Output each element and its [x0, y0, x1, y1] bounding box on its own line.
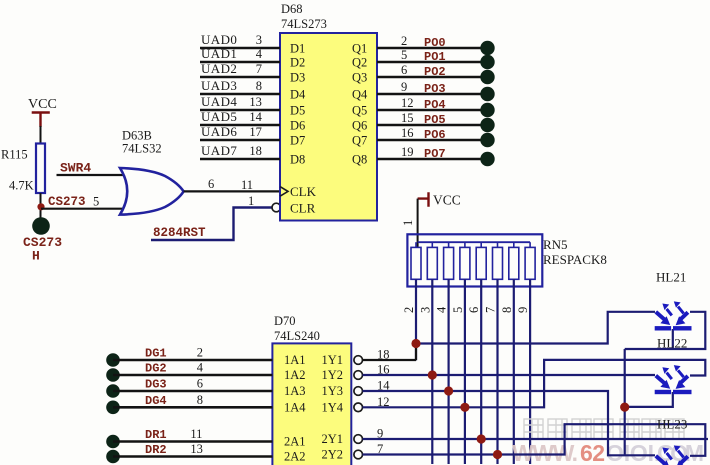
svg-text:74LS240: 74LS240 — [274, 329, 320, 343]
terminal PO5 — [480, 118, 494, 132]
terminal DG1 — [106, 353, 120, 367]
svg-text:D2: D2 — [290, 56, 305, 70]
junction dot net18/RN2 — [411, 339, 420, 348]
svg-text:1A4: 1A4 — [284, 400, 306, 414]
junction dot net12/RN5 — [460, 403, 469, 412]
svg-text:D5: D5 — [290, 104, 305, 118]
svg-text:UAD5: UAD5 — [201, 109, 237, 124]
svg-text:VCC: VCC — [28, 97, 57, 112]
terminal PO4 — [480, 103, 494, 117]
junction dot net7/RN7 — [493, 450, 502, 459]
wire DG3 — [113, 377, 272, 392]
svg-text:UAD2: UAD2 — [201, 61, 237, 76]
svg-text:2: 2 — [197, 346, 203, 360]
svg-text:4: 4 — [435, 306, 449, 313]
svg-text:CS273: CS273 — [23, 235, 62, 250]
svg-text:PO1: PO1 — [424, 50, 446, 64]
terminal DG3 — [106, 384, 120, 398]
terminal DG4 — [106, 401, 120, 415]
wire UAD7 — [200, 143, 280, 159]
svg-text:13: 13 — [190, 442, 203, 456]
svg-text:1Y3: 1Y3 — [322, 384, 344, 398]
svg-text:1: 1 — [401, 220, 415, 226]
wire RN5 pin 5 — [451, 279, 465, 464]
watermark url — [512, 440, 704, 465]
wire R115 to terminal — [40, 193, 42, 218]
svg-text:UAD0: UAD0 — [201, 32, 237, 47]
svg-text:2Y1: 2Y1 — [322, 432, 344, 446]
LED HL22 — [655, 336, 692, 395]
wire pin14 to HL23 anode — [363, 391, 656, 455]
svg-text:19: 19 — [401, 145, 414, 159]
wire RN5 pin 3 — [418, 279, 432, 464]
LED HL21 — [655, 270, 692, 331]
svg-text:PO5: PO5 — [424, 113, 446, 127]
svg-text:Q6: Q6 — [352, 119, 367, 133]
svg-text:WWW.: WWW. — [512, 440, 578, 465]
svg-text:RESPACK8: RESPACK8 — [543, 252, 607, 267]
svg-text:Q5: Q5 — [352, 104, 367, 118]
wire pin9 — [363, 438, 709, 440]
inverter bubble 2Y2 — [354, 450, 363, 459]
svg-text:6: 6 — [197, 377, 203, 391]
clock marker CLK pin — [280, 187, 288, 197]
svg-text:VCC: VCC — [433, 193, 461, 208]
svg-text:H: H — [32, 249, 40, 264]
wire UAD5 — [200, 109, 280, 125]
wire PO3 — [377, 80, 481, 96]
svg-text:3: 3 — [256, 33, 262, 47]
junction dot net16/RN3 — [428, 370, 437, 379]
svg-text:1Y2: 1Y2 — [322, 368, 344, 382]
wire cathode bus — [624, 349, 626, 455]
svg-text:6: 6 — [401, 63, 407, 77]
LED HL23 — [655, 417, 692, 465]
svg-text:DR2: DR2 — [145, 443, 167, 457]
svg-text:1Y4: 1Y4 — [322, 400, 344, 414]
svg-text:5: 5 — [401, 48, 407, 62]
wire pin18 to node — [363, 344, 417, 361]
svg-text:2A1: 2A1 — [284, 435, 306, 449]
wire PO7 — [377, 145, 481, 161]
svg-text:UAD6: UAD6 — [201, 124, 237, 139]
wire RN5 pin 6 — [467, 279, 481, 464]
wire net18 to HL21 anode — [416, 312, 655, 344]
wire DR1 — [113, 427, 272, 442]
svg-text:OIOI: OIOI — [606, 440, 654, 465]
svg-text:PO6: PO6 — [424, 128, 446, 142]
terminal PO0 — [480, 41, 494, 55]
svg-text:PO7: PO7 — [424, 147, 446, 161]
svg-text:D1: D1 — [290, 42, 305, 56]
inverter bubble 1Y1 — [354, 356, 363, 365]
junction dot net9/RN6 — [477, 434, 486, 443]
svg-text:Q4: Q4 — [352, 88, 368, 102]
terminal PO2 — [480, 70, 494, 84]
svg-text:4: 4 — [256, 47, 263, 61]
svg-text:Q3: Q3 — [352, 71, 367, 85]
wire RN5 pin 8 — [500, 279, 514, 464]
IC D68 74LS273 — [280, 2, 377, 221]
svg-text:6: 6 — [467, 307, 481, 313]
wire UAD4 — [200, 94, 280, 110]
wire DG4 — [113, 393, 272, 408]
svg-text:PO0: PO0 — [424, 36, 446, 50]
wire pin12 to HL22 right anode — [363, 360, 706, 407]
terminal PO1 — [480, 55, 494, 69]
wire / label CS273 5 — [41, 195, 130, 210]
wire UAD6 — [200, 124, 280, 140]
svg-text:HL22: HL22 — [657, 336, 687, 351]
svg-text:16: 16 — [401, 126, 414, 140]
wire pin16 to HL22 anode — [363, 374, 656, 376]
wire UAD0 — [200, 32, 280, 48]
inverter bubble 1Y4 — [354, 403, 363, 412]
svg-text:HL23: HL23 — [657, 417, 687, 432]
wire PO4 — [377, 96, 481, 112]
svg-text:DG3: DG3 — [145, 378, 167, 392]
IC D70 74LS240 — [272, 314, 351, 465]
svg-text:1: 1 — [248, 194, 254, 208]
svg-text:5: 5 — [93, 195, 99, 209]
wire HL22 cathode — [625, 392, 673, 407]
watermark chinese characters — [524, 419, 684, 439]
svg-text:9: 9 — [516, 307, 530, 313]
svg-text:8284RST: 8284RST — [153, 226, 206, 240]
inverter bubble 1Y3 — [354, 387, 363, 396]
terminal PO7 — [480, 152, 494, 166]
wire UAD1 — [200, 46, 280, 62]
svg-text:UAD7: UAD7 — [201, 143, 237, 158]
svg-text:D70: D70 — [274, 314, 296, 328]
svg-text:D6: D6 — [290, 119, 305, 133]
junction node CS273 — [37, 203, 44, 210]
svg-text:7: 7 — [256, 62, 262, 76]
svg-text:11: 11 — [241, 178, 253, 192]
svg-text:DG2: DG2 — [145, 362, 167, 376]
svg-text:2Y2: 2Y2 — [322, 448, 344, 462]
wire VCC to RN5 pin 1 — [417, 199, 419, 247]
svg-text:PO4: PO4 — [424, 98, 446, 112]
terminal CS273 — [32, 217, 50, 235]
terminal DG2 — [106, 368, 120, 382]
junction dot net14/RN4 — [444, 386, 453, 395]
svg-text:4: 4 — [197, 361, 204, 375]
wire RN5 pin 7 — [484, 279, 498, 464]
svg-text:4.7K: 4.7K — [9, 179, 34, 193]
wire gate output to CLK pin 11 — [184, 177, 280, 192]
inverter bubble CLR — [272, 203, 281, 212]
svg-text:13: 13 — [249, 95, 262, 109]
power VCC — [28, 97, 57, 127]
wire HL21 right anode — [625, 312, 706, 349]
svg-text:HL21: HL21 — [656, 270, 686, 285]
wire UAD3 — [200, 78, 280, 94]
terminal DR2 — [106, 450, 120, 464]
svg-text:5: 5 — [451, 307, 465, 313]
svg-text:17: 17 — [249, 125, 262, 139]
svg-text:Q7: Q7 — [352, 134, 367, 148]
svg-text:74LS32: 74LS32 — [122, 142, 162, 156]
svg-text:CS273: CS273 — [48, 195, 86, 209]
wire HL21 cathode — [672, 329, 674, 349]
svg-text:62: 62 — [580, 440, 605, 465]
power VCC (RN5) — [418, 192, 461, 207]
wire 8284RST to CLR pin 1 — [151, 194, 272, 240]
svg-text:11: 11 — [190, 427, 202, 441]
svg-text:1A2: 1A2 — [284, 368, 306, 382]
svg-text:R115: R115 — [1, 148, 28, 162]
svg-text:PO3: PO3 — [424, 82, 446, 96]
wire VCC to R115 — [40, 126, 42, 144]
svg-text:PO2: PO2 — [424, 65, 446, 79]
svg-text:DR1: DR1 — [145, 428, 167, 442]
wire DG1 — [113, 346, 272, 361]
svg-text:Q1: Q1 — [352, 42, 367, 56]
inverter bubble 1Y2 — [354, 371, 363, 380]
svg-text:9: 9 — [401, 80, 407, 94]
svg-text:15: 15 — [401, 111, 414, 125]
svg-text:D7: D7 — [290, 134, 305, 148]
wire DR2 — [113, 442, 272, 457]
resistor network RN5 RESPACK8 — [407, 234, 606, 286]
svg-text:D8: D8 — [290, 153, 305, 167]
wire RN5 pin 2 — [402, 279, 416, 360]
svg-text:Q2: Q2 — [352, 56, 367, 70]
terminal DR1 — [106, 435, 120, 449]
svg-text:1A3: 1A3 — [284, 384, 306, 398]
wire PO0 — [377, 34, 481, 50]
svg-text:14: 14 — [249, 110, 262, 124]
or-gate D63B 74LS32 — [120, 129, 184, 215]
wire / label SWR4 — [57, 161, 131, 176]
svg-text:RN5: RN5 — [543, 237, 568, 252]
wire pin7 to HL23 right anode — [363, 424, 706, 456]
junction dot cathode bus — [620, 403, 629, 412]
label CS273 H — [23, 235, 62, 264]
svg-text:12: 12 — [401, 96, 414, 110]
wire PO5 — [377, 111, 481, 127]
svg-text:1Y1: 1Y1 — [322, 353, 344, 367]
svg-text:D63B: D63B — [122, 129, 152, 143]
svg-text:2: 2 — [401, 34, 407, 48]
wire UAD2 — [200, 61, 280, 77]
svg-text:D68: D68 — [281, 2, 303, 16]
inverter bubble 2Y1 — [354, 435, 363, 444]
svg-text:6: 6 — [208, 177, 214, 191]
svg-text:8: 8 — [500, 307, 514, 313]
svg-text:7: 7 — [484, 307, 498, 313]
wire RN5 pin 9 — [516, 279, 530, 464]
terminal PO3 — [480, 87, 494, 101]
wire PO6 — [377, 126, 481, 142]
svg-text:2: 2 — [402, 307, 416, 313]
svg-text:SWR4: SWR4 — [60, 161, 91, 176]
svg-text:3: 3 — [418, 307, 432, 313]
svg-text:1A1: 1A1 — [284, 353, 306, 367]
wire RN5 pin 4 — [435, 279, 449, 464]
wire DG2 — [113, 361, 272, 376]
svg-text:8: 8 — [197, 393, 203, 407]
svg-text:Q8: Q8 — [352, 153, 367, 167]
svg-text:UAD3: UAD3 — [201, 78, 237, 93]
svg-text:2A2: 2A2 — [284, 450, 306, 464]
terminal PO6 — [480, 133, 494, 147]
svg-text:UAD1: UAD1 — [201, 46, 237, 61]
svg-text:8: 8 — [256, 79, 262, 93]
svg-text:18: 18 — [249, 144, 262, 158]
svg-text:CLR: CLR — [290, 201, 316, 216]
wire PO1 — [377, 48, 481, 64]
svg-text:D3: D3 — [290, 71, 305, 85]
resistor R115 — [1, 144, 45, 194]
wire PO2 — [377, 63, 481, 79]
svg-text:CLK: CLK — [290, 184, 317, 199]
svg-text:DG1: DG1 — [145, 347, 167, 361]
svg-text:DG4: DG4 — [145, 394, 167, 408]
svg-text:D4: D4 — [290, 88, 306, 102]
svg-text:UAD4: UAD4 — [201, 94, 237, 109]
svg-text:74LS273: 74LS273 — [281, 17, 327, 31]
